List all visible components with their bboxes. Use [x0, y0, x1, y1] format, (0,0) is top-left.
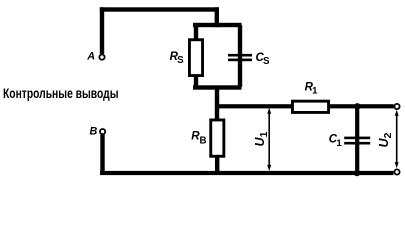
voltage arrow U1 — [267, 108, 271, 172]
svg-text:B: B — [89, 126, 97, 138]
capacitor C1 top plate — [344, 137, 370, 140]
resistor RB body — [211, 120, 224, 156]
terminal B — [100, 129, 105, 134]
wire C1 branch vertical — [355, 106, 359, 173]
svg-text:R1: R1 — [305, 82, 319, 97]
wire R_S top lead — [194, 27, 198, 40]
wire bottom rail — [100, 171, 394, 175]
wire RB bottom lead — [215, 156, 219, 172]
resistor RS body — [189, 40, 202, 76]
wire junction horizontal to R1 — [217, 104, 293, 108]
voltage arrow U2 — [395, 110, 399, 169]
terminal A — [99, 55, 104, 60]
resistor R1 body — [292, 101, 328, 112]
svg-text:CS: CS — [256, 52, 271, 67]
terminal right bottom — [394, 169, 399, 174]
wire R1 right to terminal — [329, 104, 394, 108]
svg-text:A: A — [86, 51, 95, 63]
svg-text:U2: U2 — [377, 132, 394, 147]
wire parallel box bottom — [193, 85, 242, 89]
wire A top horizontal — [100, 7, 219, 11]
wire A vertical — [100, 7, 104, 54]
svg-text:C1: C1 — [329, 133, 343, 149]
capacitor CS bottom plate — [228, 59, 252, 62]
svg-text:RВ: RВ — [191, 131, 206, 147]
junction dot C1 top — [354, 103, 360, 109]
capacitor CS top plate — [228, 54, 252, 57]
svg-text:Контрольные выводы: Контрольные выводы — [3, 85, 119, 101]
wire parallel box top — [193, 23, 242, 27]
wire center drop to RB — [215, 88, 219, 120]
capacitor C1 bottom plate — [344, 142, 370, 145]
junction dot C1 bottom — [354, 170, 360, 176]
svg-text:RS: RS — [170, 51, 185, 66]
wire C_S branch vertical — [238, 25, 242, 87]
wire B vertical — [100, 135, 104, 173]
terminal right top — [394, 104, 399, 109]
svg-text:U1: U1 — [253, 131, 270, 146]
wire R_S bottom lead — [194, 76, 198, 87]
wire drop from A feed to parallel box top — [215, 7, 219, 27]
